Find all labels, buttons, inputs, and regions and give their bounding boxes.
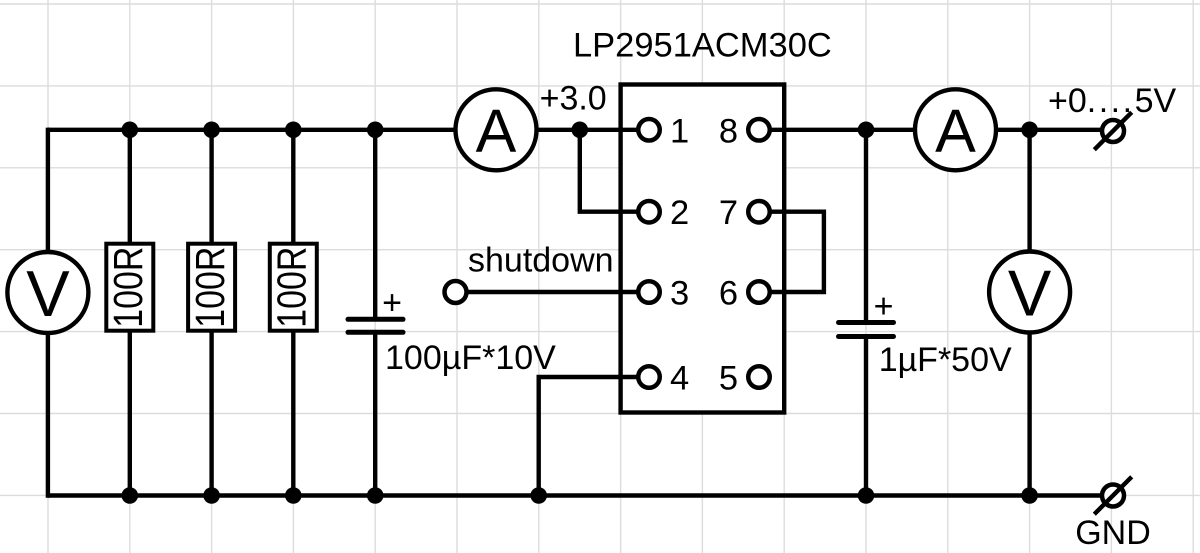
wire capacitor C2 column bottom <box>864 337 868 496</box>
svg-text:7: 7 <box>719 194 738 232</box>
pin 4 circle <box>638 366 660 388</box>
svg-text:2: 2 <box>670 194 689 232</box>
wire left edge vertical to V1 and ground bus <box>46 128 50 498</box>
pin 5 circle <box>748 366 770 388</box>
svg-text:1µF*50V: 1µF*50V <box>879 341 1012 379</box>
ground terminal <box>1094 477 1131 514</box>
svg-text:A: A <box>935 97 976 165</box>
wire top bus left (input rail) <box>48 128 637 132</box>
resistor R3 body <box>270 244 317 331</box>
pin 7 circle <box>748 201 770 223</box>
wire node +3.0 drop to pin 2 <box>580 130 637 212</box>
capacitor C1 plates <box>348 319 403 332</box>
pin 6 circle <box>748 281 770 303</box>
node +3.0 junction <box>572 122 589 139</box>
capacitor C2 plates <box>839 323 894 337</box>
node junction C2 top <box>858 122 875 139</box>
IC U1 LP2951ACM30C body <box>621 85 785 413</box>
ammeter A2 circle <box>915 89 996 170</box>
svg-text:V: V <box>1008 257 1052 330</box>
voltmeter V1 <box>7 252 88 333</box>
pin 8 circle <box>748 119 770 141</box>
resistor R2 100R <box>187 244 235 331</box>
output terminal circle <box>1102 120 1124 142</box>
wire capacitor C2 column top <box>864 130 868 323</box>
svg-text:1: 1 <box>670 112 689 150</box>
ammeter A1 circle <box>456 89 537 170</box>
svg-text:+: + <box>382 284 402 322</box>
wire pin 4 to ground bus <box>539 377 637 496</box>
wire resistor R1 column <box>128 130 132 496</box>
node junction C1 bottom <box>367 487 384 504</box>
svg-text:4: 4 <box>670 360 689 398</box>
svg-text:shutdown: shutdown <box>468 242 614 280</box>
svg-text:6: 6 <box>719 275 738 313</box>
voltmeter V2 <box>989 252 1070 333</box>
wire resistor R2 column <box>209 130 213 496</box>
svg-text:8: 8 <box>719 112 738 150</box>
ammeter A2 <box>915 89 996 170</box>
node junction R2 bottom <box>203 487 220 504</box>
svg-text:3: 3 <box>670 275 689 313</box>
ground terminal slash <box>1094 477 1131 514</box>
output terminal slash <box>1094 112 1131 149</box>
ground terminal circle <box>1102 485 1124 507</box>
svg-text:LP2951ACM30C: LP2951ACM30C <box>573 27 832 65</box>
svg-text:5: 5 <box>719 360 738 398</box>
voltmeter V2 circle <box>989 252 1070 333</box>
svg-text:GND: GND <box>1075 514 1151 552</box>
node junction R1 bottom <box>122 487 139 504</box>
pin 2 circle <box>638 201 660 223</box>
svg-text:100R: 100R <box>105 247 151 328</box>
pin 1 circle <box>638 119 660 141</box>
node junction V2 top <box>1021 122 1038 139</box>
wire capacitor C1 column top <box>373 130 377 319</box>
node junction C2 bottom <box>858 487 875 504</box>
wire jumper pin 7 to pin 6 <box>759 212 824 292</box>
svg-text:V: V <box>26 257 70 330</box>
output terminal +0....5V <box>1094 112 1131 149</box>
node junction R1 top <box>122 122 139 139</box>
svg-text:+3.0: +3.0 <box>540 80 607 118</box>
node junction pin4 bottom <box>530 487 547 504</box>
ammeter A1 <box>456 89 537 170</box>
svg-text:A: A <box>476 97 517 165</box>
wire V2 column <box>1027 130 1031 496</box>
wire ground bus <box>48 493 1100 497</box>
wire shutdown terminal to pin 3 <box>456 290 638 294</box>
resistor R3 100R <box>269 244 317 331</box>
node junction V2 bottom <box>1021 487 1038 504</box>
node junction R2 top <box>203 122 220 139</box>
resistor R1 100R <box>105 244 153 331</box>
node junction R3 bottom <box>285 487 302 504</box>
svg-text:100R: 100R <box>187 247 233 328</box>
node junction C1 top <box>367 122 384 139</box>
svg-text:100µF*10V: 100µF*10V <box>385 339 556 377</box>
svg-text:+: + <box>874 288 894 326</box>
pin 3 circle <box>638 281 660 303</box>
resistor R2 body <box>188 244 235 331</box>
shutdown terminal <box>445 281 467 303</box>
wire capacitor C1 column bottom <box>373 332 377 495</box>
node junction R3 top <box>285 122 302 139</box>
resistor R1 body <box>106 244 153 331</box>
svg-text:100R: 100R <box>269 247 315 328</box>
wire top bus right (output rail) <box>759 128 1101 132</box>
junction dots top bus <box>122 122 1038 504</box>
svg-text:+0....5V: +0....5V <box>1048 82 1176 120</box>
voltmeter V1 circle <box>7 252 88 333</box>
wire resistor R3 column <box>291 130 295 496</box>
